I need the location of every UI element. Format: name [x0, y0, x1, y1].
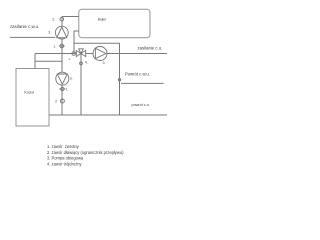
svg-text:zasilanie c.o.: zasilanie c.o.: [138, 46, 163, 51]
pump 3 (right, pompa obiegowa): [93, 47, 107, 61]
svg-text:1.: 1.: [66, 87, 69, 91]
pump 3 (middle, pompa obiegowa): [56, 72, 69, 85]
wire: stub from circulation column to boiler left edge: [62, 16, 79, 18]
svg-text:2.: 2.: [52, 17, 55, 21]
svg-text:3.: 3.: [48, 30, 51, 34]
wire: branch pipe to right vertical: [74, 43, 120, 115]
svg-text:3.: 3.: [70, 76, 73, 80]
wire: pipe from boiler left edge down to main line: [74, 31, 79, 54]
valve 2 (top, zawor dlawiacy): [60, 17, 64, 21]
svg-text:1. zawór zwrotny: 1. zawór zwrotny: [47, 144, 80, 149]
svg-text:3.: 3.: [103, 61, 106, 65]
wire: three-way valve bottom vertical: [80, 54, 82, 116]
node on right vertical pipe: [118, 79, 120, 81]
valve 2 (middle, zawor dlawiacy): [60, 99, 64, 103]
svg-text:Kocioł: Kocioł: [24, 91, 34, 95]
svg-text:Bojler: Bojler: [98, 17, 107, 21]
svg-text:3. Pompa obiegowa: 3. Pompa obiegowa: [47, 156, 84, 161]
svg-text:zasilanie c.w.u.: zasilanie c.w.u.: [10, 24, 39, 29]
valve 1 (on main line near three-way valve): [72, 52, 76, 56]
wire: main vertical pipe x=62: [61, 17, 63, 116]
svg-text:4.: 4.: [85, 61, 88, 65]
svg-text:1.: 1.: [68, 57, 71, 61]
svg-text:2. zawór dławiący (ogranicznik: 2. zawór dławiący (ogranicznik przepływu…: [47, 150, 124, 155]
svg-text:powrót c.o.: powrót c.o.: [132, 103, 150, 107]
svg-text:1.: 1.: [53, 45, 56, 49]
svg-text:Powrót c.w.u.: Powrót c.w.u.: [125, 72, 150, 77]
three-way valve 4 (zawor trojdrozny): [76, 49, 85, 57]
wire: powrot c.w.u. horizontal pipe: [121, 82, 164, 84]
boiler box "Bojler": [79, 9, 150, 37]
svg-text:2: 2: [55, 100, 57, 104]
pump 3 (top, pompa obiegowa): [55, 26, 68, 39]
small valve on three-way valve drop pipe: [80, 62, 83, 65]
valve 1 (middle, zawor zwrotny): [59, 87, 65, 90]
wire: main horizontal pipe y=53.5 (zasilanie c.o.): [35, 53, 167, 55]
valve 1 (top, zawor zwrotny): [59, 44, 65, 48]
wire: bottom return pipe (powrot c.o.): [49, 114, 167, 116]
furnace box "Kociol": [16, 69, 49, 127]
wire: vertical pipe x=35 down to furnace top: [34, 54, 36, 69]
wire: second horizontal pipe y=61.3: [35, 60, 62, 62]
wire: zasilanie c.w.u. horizontal pipe: [10, 36, 55, 38]
svg-text:4. zawór trójdrożny: 4. zawór trójdrożny: [47, 161, 83, 166]
